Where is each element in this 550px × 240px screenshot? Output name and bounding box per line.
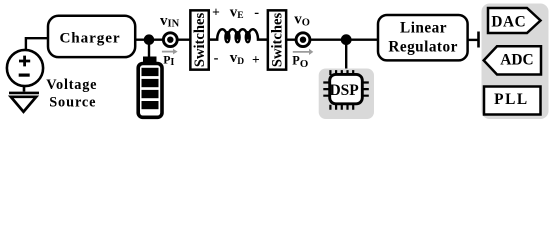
loads panel background xyxy=(482,4,549,120)
svg-text:vE: vE xyxy=(230,4,244,21)
junction dot at vO xyxy=(341,34,352,45)
svg-text:+: + xyxy=(252,52,260,67)
svg-text:Switches: Switches xyxy=(192,13,208,68)
svg-text:ADC: ADC xyxy=(500,51,533,68)
label Voltage Source xyxy=(46,77,97,110)
ADC block xyxy=(484,46,541,74)
PLL block xyxy=(484,87,541,115)
svg-text:Voltage: Voltage xyxy=(46,77,97,93)
switches block left xyxy=(190,10,208,69)
svg-text:DSP: DSP xyxy=(329,82,359,99)
ground xyxy=(9,87,39,112)
junction dot xyxy=(144,34,155,45)
bus terminal bar xyxy=(477,32,480,48)
svg-text:PI: PI xyxy=(163,53,174,68)
svg-text:Switches: Switches xyxy=(269,13,285,68)
DSP panel background xyxy=(319,69,374,120)
svg-text:DAC: DAC xyxy=(491,13,526,30)
DSP chip U1 xyxy=(323,70,369,110)
svg-text:+: + xyxy=(212,5,220,20)
node vIN port circle xyxy=(163,33,177,47)
voltage source V1 xyxy=(7,50,43,86)
DAC block xyxy=(488,8,541,33)
switches block right xyxy=(268,10,286,69)
wire from voltage source to charger xyxy=(26,38,49,49)
svg-text:Charger: Charger xyxy=(59,29,120,46)
wire charger to left switches xyxy=(135,39,191,41)
svg-text:Regulator: Regulator xyxy=(388,39,457,56)
arrow PO xyxy=(293,49,314,55)
wire junction to DSP xyxy=(345,40,347,69)
svg-text:Source: Source xyxy=(49,94,96,110)
label vD with polarity xyxy=(214,50,260,67)
battery xyxy=(138,57,162,118)
svg-text:-: - xyxy=(254,5,259,21)
charger block xyxy=(48,16,135,57)
svg-text:vIN: vIN xyxy=(160,13,180,30)
inductor L xyxy=(210,29,268,42)
arrow PI xyxy=(162,49,178,55)
wire to battery xyxy=(148,40,150,57)
svg-text:PO: PO xyxy=(292,53,308,70)
wire right switches to linear regulator xyxy=(287,39,379,41)
svg-text:vD: vD xyxy=(230,50,245,67)
wire linear regulator to loads xyxy=(468,39,478,41)
linear regulator block xyxy=(378,15,468,60)
label vE with polarity xyxy=(212,4,259,21)
node vO port circle xyxy=(296,33,310,47)
svg-text:PLL: PLL xyxy=(494,91,528,108)
svg-text:-: - xyxy=(214,50,219,66)
svg-text:vO: vO xyxy=(294,12,310,29)
svg-text:Linear: Linear xyxy=(400,20,447,37)
